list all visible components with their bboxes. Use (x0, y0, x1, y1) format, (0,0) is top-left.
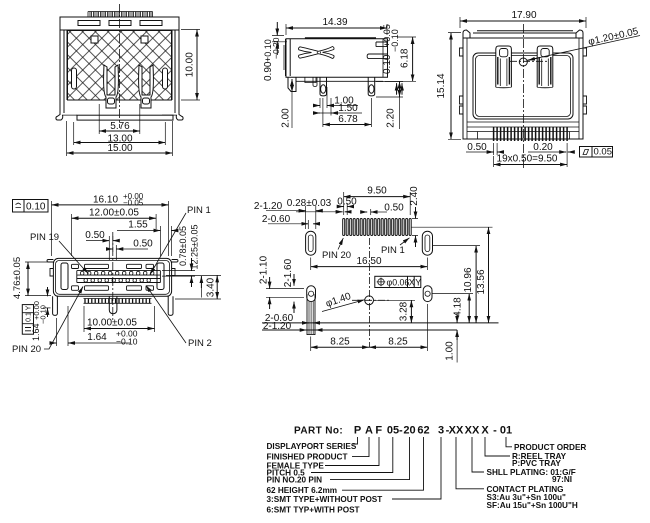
dim 12.00 (72, 214, 157, 256)
svg-text:0.05: 0.05 (594, 147, 613, 158)
dim 1.50 (313, 98, 362, 116)
leader dia 1.40 (322, 300, 365, 312)
svg-text:0.28±0.03: 0.28±0.03 (287, 198, 332, 209)
dim 0.50 rear (466, 143, 504, 155)
pin19 label (30, 232, 89, 274)
svg-text:PIN 20: PIN 20 (322, 250, 351, 261)
upper oval left (306, 231, 316, 255)
svg-text:PIN 20: PIN 20 (12, 344, 41, 355)
right end bar (157, 263, 164, 290)
dim 0.20 rear (528, 151, 574, 153)
svg-text:F: F (375, 425, 382, 437)
svg-text:0.90: 0.90 (263, 61, 274, 81)
svg-text:1.00: 1.00 (444, 341, 455, 361)
center line (119, 4, 121, 128)
dim 16.10 (52, 201, 169, 256)
bottom plate (77, 115, 173, 120)
latch spring bow-tie (299, 47, 335, 59)
svg-text:2.20: 2.20 (386, 108, 397, 128)
svg-text:3:SMT TYPE+WITHOUT POST: 3:SMT TYPE+WITHOUT POST (267, 495, 383, 504)
svg-text:13.56: 13.56 (476, 269, 487, 294)
dim 10.00 (181, 30, 200, 101)
dim 9.50 pcb (344, 192, 411, 215)
tolerance frame top-left (13, 200, 49, 213)
svg-text:P: P (354, 425, 361, 437)
dim 2.00 left bottom (291, 79, 293, 128)
top strip (473, 31, 576, 33)
side contact right (163, 68, 168, 89)
svg-text:05: 05 (387, 425, 399, 437)
bottom plate (296, 77, 383, 81)
lower oval right (423, 286, 432, 302)
dim 6.18 right (385, 37, 416, 81)
left leg (53, 296, 58, 315)
svg-text:6.78: 6.78 (338, 114, 358, 125)
svg-text:−0.10: −0.10 (39, 305, 48, 324)
svg-text:SF:Au 15u"+Sn 100U"H: SF:Au 15u"+Sn 100U"H (487, 501, 578, 510)
dim 4.18 (432, 294, 473, 323)
code connector lines (353, 437, 358, 444)
dim 6.78 (323, 98, 372, 127)
svg-text:1.64: 1.64 (87, 332, 107, 343)
svg-text:−0.10: −0.10 (390, 29, 400, 52)
svg-text:8.25: 8.25 (388, 337, 408, 348)
svg-text:97:NI: 97:NI (552, 475, 572, 484)
svg-text:2‑0.60: 2‑0.60 (262, 214, 291, 225)
dim 1.64 bottom (51, 306, 131, 346)
svg-text:φ0.06: φ0.06 (387, 278, 410, 288)
dim 15.14 (448, 33, 461, 140)
svg-text:PART No:: PART No: (294, 426, 343, 437)
leg 2 (368, 78, 375, 96)
upper oval right (422, 231, 432, 255)
svg-text:15.14: 15.14 (436, 73, 447, 98)
svg-text:-: - (493, 425, 497, 437)
svg-text:20: 20 (403, 425, 415, 437)
side bumps right (583, 48, 587, 114)
svg-text:10.96: 10.96 (463, 267, 474, 292)
svg-text:10.00±0.05: 10.00±0.05 (87, 318, 137, 329)
svg-text:2.00: 2.00 (281, 108, 292, 128)
tolerance frames left mid (22, 305, 33, 335)
svg-text:0.50: 0.50 (133, 239, 153, 250)
svg-text:6.18: 6.18 (400, 48, 411, 68)
svg-text:3.40: 3.40 (206, 277, 217, 297)
flatness frame (580, 147, 613, 158)
top ears (463, 30, 470, 38)
top view shell (56, 4, 200, 156)
dim 2-1.20 top (266, 206, 322, 229)
dim 0.50 pcb a (338, 203, 354, 215)
svg-text:1.50: 1.50 (338, 103, 358, 114)
dim 0.90 left (272, 22, 287, 55)
dim 15.00 (67, 121, 173, 156)
svg-text:0.50: 0.50 (384, 203, 404, 214)
svg-text:2‑1.10: 2‑1.10 (259, 255, 270, 284)
dim 1.64 left (43, 287, 51, 317)
hatch fill (68, 31, 172, 101)
svg-text:XX: XX (449, 425, 464, 437)
leg 1 (313, 78, 327, 96)
pin comb top (88, 12, 153, 18)
svg-text:0.20: 0.20 (533, 142, 553, 153)
latch right (537, 46, 553, 88)
svg-text:12.00±0.05: 12.00±0.05 (89, 208, 139, 219)
svg-text:PIN 1: PIN 1 (381, 245, 405, 256)
center hole (519, 58, 527, 66)
dim 0.50 b (107, 245, 148, 260)
svg-text:14.39: 14.39 (322, 17, 347, 28)
svg-text:X: X (409, 278, 415, 288)
left labels (267, 442, 383, 515)
svg-text:Y: Y (26, 305, 33, 310)
svg-text:6:SMT TYP+WITH POST: 6:SMT TYP+WITH POST (267, 506, 360, 515)
center line front (112, 232, 114, 322)
svg-text:10.00: 10.00 (185, 52, 196, 77)
dim 2-1.10 (266, 277, 304, 309)
dim 3.28 (374, 300, 416, 323)
left foot (288, 78, 296, 92)
front view body (12, 192, 221, 355)
svg-text:0.50: 0.50 (85, 230, 105, 241)
svg-text:3.28: 3.28 (399, 301, 410, 321)
outer box (463, 38, 583, 139)
dim 10.00 bottom (84, 306, 155, 332)
dim 5.76 (99, 104, 140, 134)
svg-text:0.78±0.05: 0.78±0.05 (178, 226, 188, 266)
svg-text:15.00: 15.00 (107, 143, 132, 154)
svg-text:0.50: 0.50 (467, 142, 487, 153)
dim 10.96 (433, 246, 481, 323)
svg-text:Y: Y (415, 278, 421, 288)
svg-text:PRODUCT ORDER: PRODUCT ORDER (514, 443, 586, 452)
position frame (375, 276, 421, 287)
svg-text:P:PVC TRAY: P:PVC TRAY (512, 459, 561, 468)
pin20 pcb label (322, 238, 351, 261)
rear view body (436, 10, 640, 170)
svg-text:PIN NO.20 PIN: PIN NO.20 PIN (267, 476, 323, 485)
dim 17.90 (460, 17, 586, 28)
svg-text:−0.05: −0.05 (123, 199, 144, 208)
dim 12.25 right (200, 276, 202, 297)
latch arm left (104, 65, 119, 108)
shell outer body (56, 17, 183, 120)
side bumps left (460, 48, 464, 114)
svg-text:0.10: 0.10 (26, 202, 46, 213)
dim 19x0.50 (494, 143, 567, 167)
svg-text:16.10: 16.10 (93, 195, 118, 206)
svg-text:9.50: 9.50 (367, 186, 387, 197)
dim 2.20 right bottom (376, 82, 403, 130)
svg-text:01: 01 (500, 425, 512, 437)
pin1 pcb label (381, 238, 410, 256)
bottom inner lines (467, 122, 579, 132)
bottom slot row (72, 286, 154, 291)
inner opening (473, 53, 573, 119)
svg-text:−0.20: −0.20 (271, 37, 281, 59)
dim 1.00 (456, 313, 458, 363)
svg-text:3: 3 (438, 425, 444, 437)
dim 16.50 (311, 258, 428, 271)
left ear (47, 260, 53, 277)
svg-text:A: A (365, 425, 373, 437)
center line rear (523, 24, 525, 170)
svg-text:0.10: 0.10 (382, 54, 393, 74)
dim 2-0.60 top (268, 220, 319, 229)
svg-text:2‑1.20: 2‑1.20 (254, 201, 283, 212)
svg-text:PIN 2: PIN 2 (188, 338, 212, 349)
svg-text:-: - (399, 425, 403, 437)
dim 13.00 (74, 122, 166, 145)
dim 4.76 left (25, 262, 51, 296)
side view body (263, 17, 416, 129)
svg-text:FINISHED PRODUCT: FINISHED PRODUCT (267, 453, 348, 462)
pin comb rear (494, 127, 567, 141)
center post (109, 296, 117, 313)
svg-text:62 HEIGHT 6.2mm: 62 HEIGHT 6.2mm (267, 486, 338, 495)
svg-text:2‑1.60: 2‑1.60 (283, 258, 294, 287)
svg-text:4.18: 4.18 (453, 297, 464, 317)
dim 0.28 pcb (296, 211, 350, 213)
dim 14.39 (286, 24, 387, 35)
svg-text:−0.10: −0.10 (116, 337, 138, 347)
svg-text:PIN 1: PIN 1 (187, 205, 211, 216)
part number tree (267, 425, 587, 515)
side contact left (72, 68, 77, 89)
right top step (376, 42, 388, 47)
shell outline (53, 258, 171, 296)
svg-text:PIN 19: PIN 19 (30, 232, 59, 243)
dim 1.55 (117, 226, 177, 256)
latch left (496, 46, 512, 88)
pin1 label (150, 205, 211, 275)
svg-text:DISPLAYPORT SERIES: DISPLAYPORT SERIES (267, 442, 357, 451)
svg-text:5.76: 5.76 (110, 121, 130, 132)
lower slot left (307, 286, 316, 335)
center hole pcb (352, 238, 390, 347)
right labels (487, 443, 587, 510)
dim 0.78 right (162, 258, 195, 287)
pin20 label (12, 287, 83, 356)
svg-text:XX: XX (465, 425, 480, 437)
dim 2-1.20 bottom (301, 329, 322, 331)
dim 8.25 8.25 (311, 304, 428, 351)
top slot row (72, 264, 154, 268)
serration strip (84, 299, 152, 304)
svg-text:19x0.50=9.50: 19x0.50=9.50 (497, 154, 558, 165)
tongue with contacts (77, 271, 161, 283)
small square right (141, 36, 148, 43)
right leg (168, 296, 173, 315)
svg-text:0.1: 0.1 (26, 312, 33, 322)
left end bar (61, 263, 68, 290)
dim 0.50 a (86, 236, 119, 260)
dim 0.50 pcb b (361, 209, 387, 215)
latch arm right (139, 65, 154, 108)
dim 3.40 right (166, 275, 221, 299)
svg-text:4.76±0.05: 4.76±0.05 (12, 257, 23, 299)
pcb pad comb (343, 219, 412, 236)
svg-text:17.90: 17.90 (511, 10, 536, 21)
dim 2-0.60 bottom (303, 322, 319, 324)
svg-text:2‑1.20: 2‑1.20 (263, 321, 292, 332)
board line 1 (262, 322, 499, 324)
board line 2 (262, 329, 457, 331)
leader dia 1.20 (527, 36, 640, 61)
svg-text:62: 62 (417, 425, 429, 437)
svg-text:8.25: 8.25 (330, 337, 350, 348)
svg-text:1.55: 1.55 (128, 220, 148, 231)
svg-text:X: X (481, 425, 489, 437)
dim 1.00 (313, 87, 358, 108)
pin2 label (146, 286, 212, 350)
svg-text:1.64: 1.64 (31, 323, 41, 341)
right ear (172, 260, 178, 277)
dim 2.40 pcb (412, 207, 418, 247)
svg-text:12.25±0.05: 12.25±0.05 (190, 225, 200, 270)
svg-text:2.40: 2.40 (409, 186, 420, 206)
dim 13.56 (411, 227, 492, 323)
dim 0.10 right bottom (397, 83, 402, 95)
dim 2-1.60 (293, 274, 295, 313)
top strip slots (78, 21, 162, 26)
svg-text:0.50: 0.50 (337, 197, 357, 208)
small square left (91, 36, 98, 43)
right mid bar (367, 54, 387, 59)
